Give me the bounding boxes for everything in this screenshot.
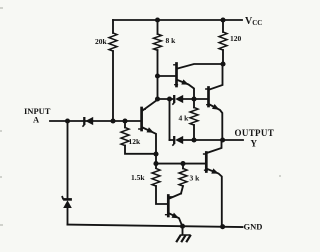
- transistor Q2 collector: [143, 100, 158, 111]
- svg-text:4 k: 4 k: [179, 114, 190, 123]
- diode D1 schottky hook: [82, 125, 84, 127]
- resistor 120 leads: [222, 20, 224, 64]
- node dot input-20k: [110, 118, 115, 123]
- transistor Q6 collector: [207, 140, 221, 153]
- emitter arrow Q3: [181, 79, 189, 84]
- svg-text:VCC: VCC: [245, 16, 262, 27]
- resistor 20k leads: [112, 20, 114, 121]
- diode D3 triangle: [175, 95, 183, 103]
- Vcc rail: [113, 19, 242, 21]
- emitter arrow Q2: [147, 127, 155, 133]
- vertical between diode lines: [169, 99, 171, 140]
- diode D4 schottky hook: [172, 144, 174, 146]
- resistor 120: [219, 32, 227, 50]
- emitter arrow Q4: [212, 104, 220, 110]
- transistor Q2 base hooks: [139, 109, 145, 129]
- transistor Q6 base hooks: [204, 154, 208, 170]
- diode D1 triangle: [85, 117, 93, 125]
- node dot 4k bottom: [191, 137, 196, 142]
- transistor Q2 emitter: [143, 128, 156, 169]
- diode D4 triangle: [175, 136, 183, 144]
- node dot gnd-Q5: [180, 224, 185, 229]
- resistor 3k: [179, 169, 187, 186]
- diode D2 triangle: [63, 200, 72, 208]
- transistor Q4 base hooks: [206, 89, 210, 105]
- resistor 1.5k leads: [156, 186, 167, 204]
- diode D4 cathode bar: [173, 136, 175, 144]
- wire: 8k column to Q3 base: [158, 75, 176, 77]
- input wire: [50, 120, 141, 122]
- emitter arrow Q6: [211, 168, 219, 173]
- node dot 3k top: [180, 161, 185, 166]
- diode D3 schottky hook: [172, 103, 174, 105]
- edge artifact marks: [0, 8, 281, 225]
- svg-text:Y: Y: [251, 139, 258, 149]
- resistor 12k leads: [125, 121, 156, 154]
- transistor Q3 base bar: [175, 64, 178, 87]
- emitter arrow Q5: [172, 213, 180, 219]
- node dot Q2 collector: [155, 96, 160, 101]
- svg-text:A: A: [33, 115, 40, 125]
- wire: clamp branch down: [67, 121, 69, 198]
- svg-text:8 k: 8 k: [166, 36, 177, 45]
- transistor Q3 base hooks: [174, 65, 178, 85]
- svg-text:12k: 12k: [129, 137, 142, 146]
- resistor 4k leads: [193, 99, 195, 140]
- diode D1 cathode bar: [83, 117, 85, 125]
- resistor 8k leads: [157, 20, 159, 99]
- node dot 12k-emitter: [153, 151, 158, 156]
- top diode line: [158, 98, 208, 100]
- svg-text:OUTPUT: OUTPUT: [235, 128, 275, 138]
- node dot rail-8k: [155, 17, 160, 22]
- resistor 8k: [154, 34, 162, 50]
- svg-text:GND: GND: [244, 222, 263, 232]
- transistor Q5 collector: [169, 194, 181, 199]
- node dot input-12k: [122, 118, 127, 123]
- node dot input-clamp: [65, 118, 70, 123]
- wire: emitter node to 3k and Q6 base: [156, 163, 205, 165]
- resistor 20k: [109, 33, 117, 51]
- wire: clamp to gnd corner: [67, 208, 69, 225]
- node dot output: [220, 137, 225, 142]
- svg-text:1.5k: 1.5k: [131, 173, 145, 182]
- wire: 120 node: [222, 63, 224, 65]
- resistor 1.5k: [152, 169, 160, 186]
- diode D2 cathode bar: [63, 198, 72, 201]
- svg-text:3 k: 3 k: [190, 174, 201, 183]
- transistor Q3 collector: [178, 64, 224, 69]
- resistor 4k: [190, 108, 198, 126]
- node dot 8k-Q3base: [155, 73, 160, 78]
- resistor 3k leads: [181, 164, 183, 194]
- transistor Q4 emitter: [210, 105, 223, 141]
- transistor Q5 emitter: [169, 214, 182, 227]
- resistor 12k: [121, 128, 129, 146]
- svg-text:20k: 20k: [95, 37, 108, 46]
- diode D3 cathode bar: [173, 95, 175, 103]
- ground symbol top bar: [180, 234, 190, 236]
- transistor Q5 base hooks: [166, 197, 172, 215]
- transistor Q3 emitter: [178, 80, 195, 99]
- transistor Q2 base bar: [140, 108, 143, 130]
- node dot emitter-Q6base: [153, 161, 158, 166]
- node dot gnd-Q6: [220, 224, 225, 229]
- node dot top diode line: [167, 96, 172, 101]
- transistor Q4 collector: [210, 64, 223, 90]
- ground symbol stub: [182, 226, 184, 235]
- node dot rail-120: [220, 17, 225, 22]
- GND rail: [68, 225, 243, 227]
- node dot 120 bottom: [220, 61, 225, 66]
- diode D2 schottky hook: [62, 196, 63, 199]
- node dot 4k top: [191, 96, 196, 101]
- ground symbol hatches: [176, 235, 191, 242]
- bottom diode line / output wire: [170, 139, 244, 141]
- transistor Q4 base bar: [207, 88, 210, 107]
- transistor Q5 base bar: [167, 196, 170, 217]
- svg-text:120: 120: [230, 34, 242, 43]
- transistor Q6 emitter: [207, 169, 222, 227]
- transistor Q6 base bar: [205, 153, 208, 172]
